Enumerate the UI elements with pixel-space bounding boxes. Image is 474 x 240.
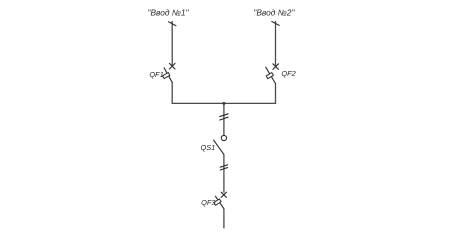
svg-text:QF3: QF3 [201,198,216,207]
svg-text:QF2: QF2 [281,69,295,78]
svg-text:QS1: QS1 [201,143,216,152]
svg-text:"Ввод №2": "Ввод №2" [253,8,295,18]
svg-text:QF1: QF1 [149,70,163,79]
svg-text:"Ввод №1": "Ввод №1" [147,8,189,18]
